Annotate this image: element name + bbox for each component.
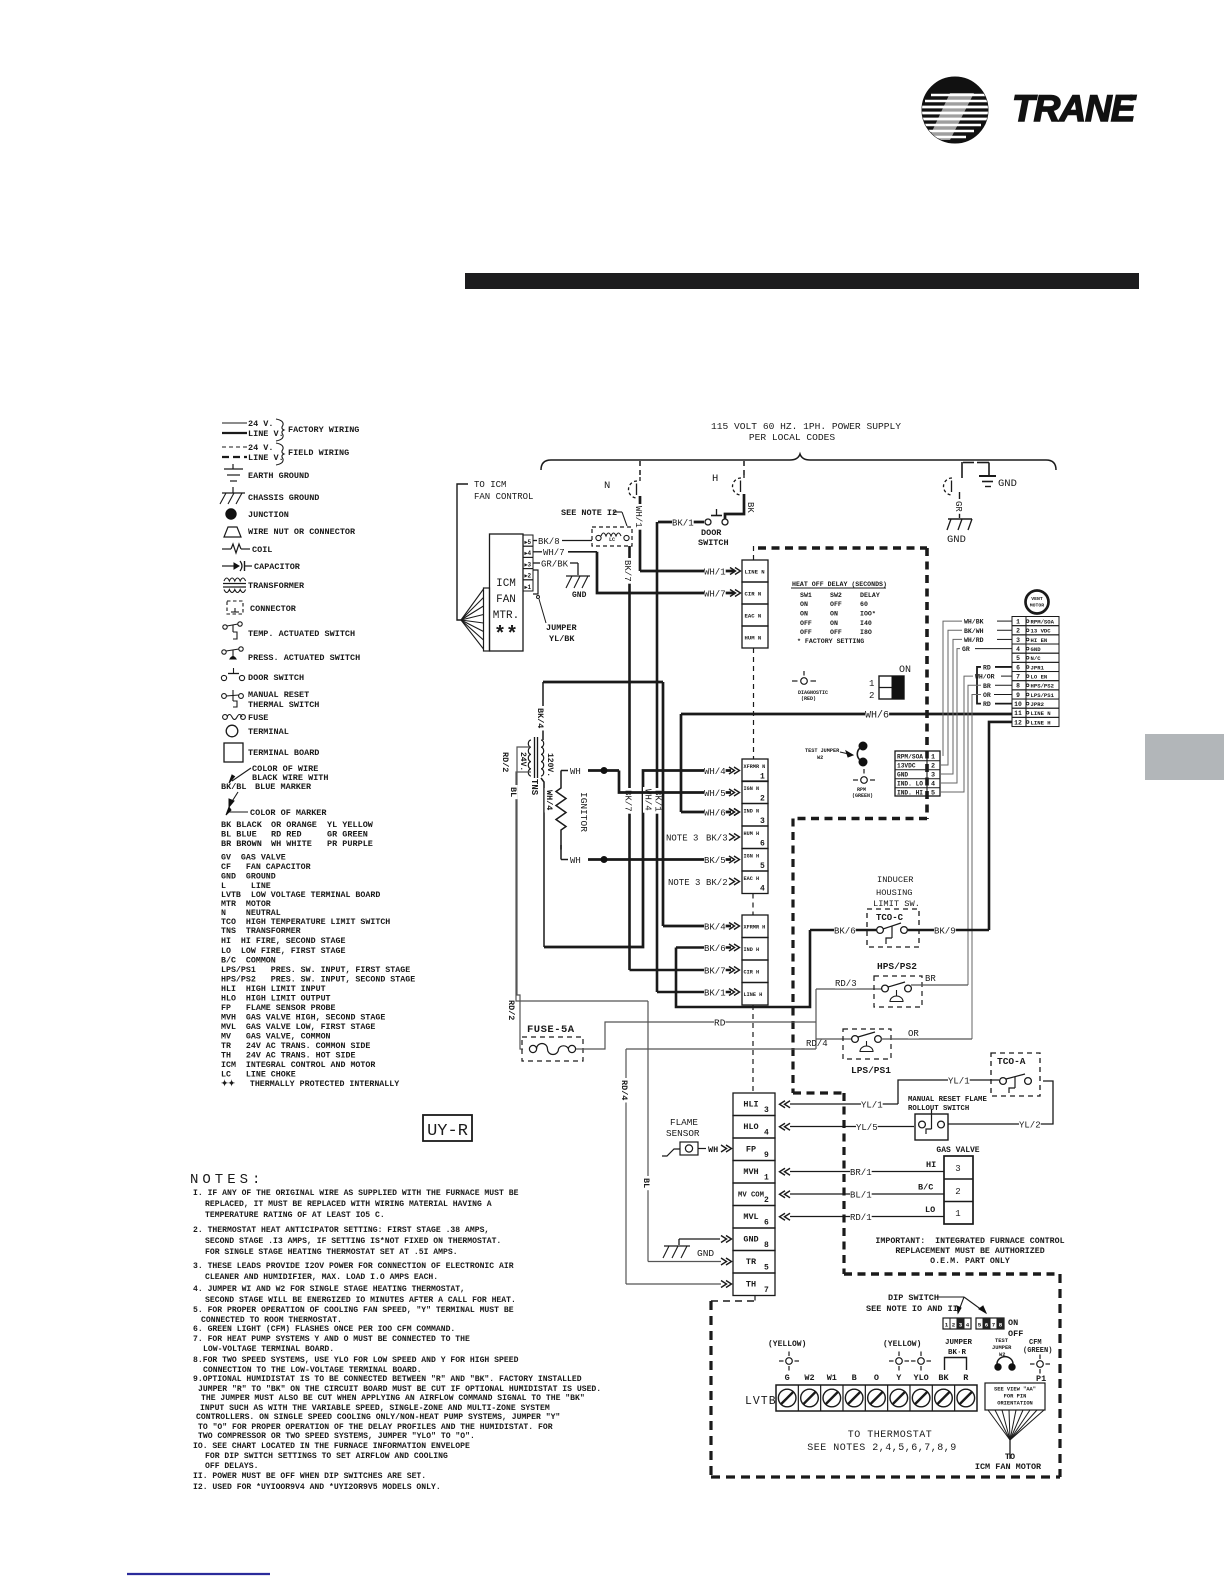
svg-text:HLI HIGH LIMIT INPUT: HLI HIGH LIMIT INPUT <box>221 985 326 994</box>
svg-text:TERMINAL BOARD: TERMINAL BOARD <box>248 748 319 758</box>
svg-text:TRANE: TRANE <box>1012 88 1137 129</box>
svg-text:WH/6: WH/6 <box>704 809 726 819</box>
dip switch block 1-4 <box>943 1318 971 1329</box>
svg-text:TEMPERATURE RATING OF AT LEAST: TEMPERATURE RATING OF AT LEAST IO5 C. <box>205 1211 385 1220</box>
svg-text:FACTORY WIRING: FACTORY WIRING <box>288 425 359 435</box>
svg-text:CLEANER AND HUMIDIFIER, MAX. L: CLEANER AND HUMIDIFIER, MAX. LOAD I.O AM… <box>205 1273 438 1282</box>
svg-text:12: 12 <box>1014 719 1022 726</box>
svg-text:FP: FP <box>746 1145 756 1155</box>
svg-text:GR: GR <box>953 501 963 512</box>
svg-text:BK/5: BK/5 <box>704 856 726 866</box>
svg-text:CF FAN CAPACITOR: CF FAN CAPACITOR <box>221 863 311 872</box>
svg-text:TR 24V AC TRANS. COMMON SIDE: TR 24V AC TRANS. COMMON SIDE <box>221 1042 370 1051</box>
legend terminal symbol <box>226 725 238 737</box>
svg-text:WH WHITE: WH WHITE <box>271 839 312 849</box>
label BK/1 at pin <box>704 990 726 998</box>
svg-text:R: R <box>963 1373 969 1383</box>
wire BK/9 <box>908 929 989 932</box>
svg-text:XFRMR N: XFRMR N <box>744 764 766 770</box>
svg-text:LINE V.: LINE V. <box>248 453 284 463</box>
wire YL/1 to HLI <box>790 1103 898 1105</box>
wire BK/4 top <box>542 682 544 740</box>
svg-text:LPS/PS1 PRES. SW. INPUT, FIR: LPS/PS1 PRES. SW. INPUT, FIRST STAGE <box>221 965 410 975</box>
svg-text:JUMPER: JUMPER <box>992 1345 1012 1351</box>
svg-text:HLO: HLO <box>743 1122 758 1132</box>
label WH/7 at pin <box>704 591 726 599</box>
label BK/6 at pin <box>704 945 726 953</box>
connector chevron right-facing <box>721 1236 732 1243</box>
ignitor bottom WH lead <box>560 845 562 860</box>
svg-text:FOR PIN: FOR PIN <box>1004 1394 1027 1400</box>
ICM pin 5 box <box>523 535 533 546</box>
svg-text:CHASSIS GROUND: CHASSIS GROUND <box>248 493 319 503</box>
connector chevron <box>729 767 740 774</box>
wire BR/1 <box>790 1171 944 1173</box>
jumper BK-R bracket <box>945 1358 967 1371</box>
svg-text:FAN: FAN <box>496 594 516 606</box>
svg-text:BK/4: BK/4 <box>704 923 726 933</box>
svg-text:TO THERMOSTAT: TO THERMOSTAT <box>848 1430 933 1441</box>
legend field brace <box>276 443 284 465</box>
ICM wire fan <box>461 589 484 620</box>
svg-text:3: 3 <box>955 1164 960 1174</box>
svg-text:THERMAL SWITCH: THERMAL SWITCH <box>248 700 319 710</box>
svg-text:ICM FAN MOTOR: ICM FAN MOTOR <box>975 1462 1042 1472</box>
svg-text:RD: RD <box>983 664 991 671</box>
svg-text:GND GROUND: GND GROUND <box>221 873 276 882</box>
svg-text:* FACTORY SETTING: * FACTORY SETTING <box>797 638 864 645</box>
svg-text:LINE N: LINE N <box>745 569 765 576</box>
wire BK/1 stub to door switch <box>658 521 704 524</box>
legend transformer symbol <box>224 578 246 581</box>
legend color-of-marker callout <box>228 811 248 813</box>
svg-text:HEAT OFF DELAY (SECONDS): HEAT OFF DELAY (SECONDS) <box>792 581 887 588</box>
svg-text:NOTES:: NOTES: <box>190 1172 264 1188</box>
svg-text:GND: GND <box>1031 646 1042 653</box>
svg-text:BR: BR <box>983 683 991 690</box>
svg-text:SEE NOTES 2,4,5,6,7,8,9: SEE NOTES 2,4,5,6,7,8,9 <box>807 1443 957 1454</box>
svg-text:3: 3 <box>760 817 765 826</box>
svg-text:(YELLOW): (YELLOW) <box>768 1340 806 1349</box>
svg-text:JUMPER: JUMPER <box>945 1339 973 1347</box>
svg-text:6: 6 <box>1016 664 1020 671</box>
svg-text:OFF: OFF <box>830 629 842 636</box>
svg-text:LVTB LOW VOLTAGE TERMINAL BOA: LVTB LOW VOLTAGE TERMINAL BOARD <box>221 891 380 900</box>
svg-text:WH/4: WH/4 <box>704 767 726 777</box>
test jumper arrow <box>840 752 853 755</box>
wire GR/BK <box>533 562 540 564</box>
rollout switch box <box>915 1114 948 1140</box>
svg-text:VENT: VENT <box>1031 596 1043 602</box>
wire BL vertical <box>647 1001 649 1262</box>
svg-text:FOR DIP SWITCH SETTINGS TO SET: FOR DIP SWITCH SETTINGS TO SET AIRFLOW A… <box>205 1452 448 1461</box>
chassis ground GR/BK <box>566 575 590 577</box>
svg-text:WH/OR: WH/OR <box>975 674 995 681</box>
legend temp actuated switch symbol <box>223 625 227 629</box>
svg-text:LINE H: LINE H <box>1031 719 1051 726</box>
svg-text:TH: TH <box>746 1280 756 1290</box>
svg-text:ON: ON <box>800 601 808 608</box>
wire BK/8 <box>533 540 537 542</box>
svg-text:9.OPTIONAL HUMIDISTAT IS TO BE: 9.OPTIONAL HUMIDISTAT IS TO BE CONNECTED… <box>193 1375 582 1384</box>
svg-text:MOTOR: MOTOR <box>1030 603 1045 609</box>
svg-text:(YELLOW): (YELLOW) <box>883 1340 921 1349</box>
connector chevron WH/6 <box>729 809 740 816</box>
line choke LC <box>592 527 632 546</box>
svg-text:SECOND STAGE .I3 AMPS, IF SETT: SECOND STAGE .I3 AMPS, IF SETTING IS*NOT… <box>205 1237 501 1246</box>
svg-text:B/C COMMON: B/C COMMON <box>221 956 276 966</box>
svg-text:OR: OR <box>983 692 991 699</box>
svg-text:GR: GR <box>962 646 970 653</box>
wire WH/6 drop <box>680 714 683 812</box>
svg-text:WH/7: WH/7 <box>543 548 565 558</box>
transformer TNS right winding <box>541 740 544 776</box>
svg-text:MANUAL RESET FLAME: MANUAL RESET FLAME <box>908 1096 987 1104</box>
svg-text:1: 1 <box>760 773 765 782</box>
svg-text:GND: GND <box>743 1235 758 1245</box>
svg-text:L LINE: L LINE <box>221 882 271 891</box>
svg-text:O: O <box>874 1373 879 1383</box>
see view AA box <box>985 1383 1045 1410</box>
wire BK/7 vertical <box>628 546 631 970</box>
connector EAC N cell <box>742 604 768 626</box>
board outline right <box>925 548 929 819</box>
5-pin connector box <box>895 751 940 796</box>
ICM pin 1 box <box>523 580 533 591</box>
svg-text:RD/2: RD/2 <box>500 752 510 772</box>
svg-text:(GREEN): (GREEN) <box>1023 1347 1052 1355</box>
svg-text:BK/6: BK/6 <box>704 944 726 954</box>
connector chevron right-facing <box>721 1145 732 1152</box>
svg-text:EAC H: EAC H <box>744 876 760 882</box>
svg-text:1: 1 <box>945 1322 949 1329</box>
svg-text:8: 8 <box>1016 683 1020 690</box>
LPS/PS1 box <box>843 1029 891 1059</box>
svg-text:ON: ON <box>899 665 911 676</box>
svg-text:YL/1: YL/1 <box>861 1101 883 1111</box>
svg-text:7: 7 <box>1016 674 1020 681</box>
svg-text:FOR SINGLE STAGE HEATING THERM: FOR SINGLE STAGE HEATING THERMOSTAT SET … <box>205 1248 458 1257</box>
board outline top <box>758 546 927 550</box>
wire RD/4 horizontal <box>626 1048 816 1050</box>
svg-text:CONTROLLERS. ON SINGLE SPEED C: CONTROLLERS. ON SINGLE SPEED COOLING ONL… <box>196 1413 560 1422</box>
wire RD/2 <box>517 747 531 1049</box>
svg-text:BL: BL <box>641 1178 651 1188</box>
svg-text:GND: GND <box>572 591 587 600</box>
svg-text:I8O: I8O <box>860 629 872 636</box>
label WH/1 at pin <box>704 569 726 577</box>
svg-text:6: 6 <box>764 1219 769 1228</box>
wire N dashed drop <box>639 461 641 477</box>
svg-text:3: 3 <box>959 1322 963 1329</box>
svg-text:G: G <box>785 1373 790 1383</box>
svg-text:TO "O" FOR PROPER OPERATION OF: TO "O" FOR PROPER OPERATION OF THE DELAY… <box>198 1423 553 1432</box>
svg-text:YL/2: YL/2 <box>1019 1121 1041 1131</box>
svg-text:MVL: MVL <box>743 1212 758 1222</box>
thermostat box top left <box>711 1300 755 1302</box>
svg-text:GND: GND <box>947 534 966 546</box>
connector chevron <box>729 789 740 796</box>
svg-text:YL/5: YL/5 <box>856 1123 878 1133</box>
wire WH flame sensor <box>698 1148 706 1150</box>
svg-text:3: 3 <box>1016 637 1020 644</box>
thermostat box bottom edge <box>711 1475 1060 1478</box>
svg-text:BK: BK <box>938 1373 949 1383</box>
svg-text:BLUE MARKER: BLUE MARKER <box>255 782 312 792</box>
svg-text:I2. USED FOR *UYIOOR9V4 AND *U: I2. USED FOR *UYIOOR9V4 AND *UYI2OR9V5 M… <box>193 1483 441 1492</box>
legend LINE V field line <box>222 456 247 458</box>
svg-text:BK/1: BK/1 <box>672 519 694 529</box>
svg-text:SWITCH: SWITCH <box>698 538 729 548</box>
svg-text:OFF: OFF <box>1008 1329 1023 1339</box>
svg-text:2: 2 <box>952 1322 956 1329</box>
connector H <box>733 478 742 495</box>
svg-text:BK/9: BK/9 <box>934 927 956 937</box>
svg-text:4: 4 <box>966 1322 970 1329</box>
svg-text:(GREEN): (GREEN) <box>852 793 873 799</box>
legend coil symbol <box>222 548 231 550</box>
svg-text:SEE NOTE IO AND II: SEE NOTE IO AND II <box>866 1304 958 1314</box>
svg-text:JPR2: JPR2 <box>1031 701 1045 708</box>
TCO-C box <box>867 909 919 947</box>
svg-text:DIP SWITCH: DIP SWITCH <box>888 1293 939 1303</box>
connector chevron left-facing <box>780 1101 791 1108</box>
svg-text:RD: RD <box>983 701 991 708</box>
board outline left low <box>842 1093 845 1274</box>
svg-text:H: H <box>712 473 718 485</box>
LPS/PS1 switch <box>852 1036 859 1043</box>
LVTB terminal strip <box>776 1385 977 1411</box>
svg-text:IND H: IND H <box>744 947 760 953</box>
svg-text:CAPACITOR: CAPACITOR <box>254 562 301 572</box>
connector chevron right-facing <box>721 1281 732 1288</box>
HPS/PS2 box <box>874 976 922 1007</box>
svg-text:MVH: MVH <box>743 1167 758 1177</box>
wire RD/3 <box>816 988 881 990</box>
Trane logo circle <box>922 77 988 143</box>
svg-text:6: 6 <box>760 840 765 849</box>
wire WH/7 run <box>597 552 735 593</box>
svg-text:YLO: YLO <box>913 1373 928 1383</box>
ICM pin 4 box <box>523 546 533 557</box>
svg-text:RD/4: RD/4 <box>806 1039 828 1049</box>
svg-text:LINE H: LINE H <box>744 992 763 998</box>
svg-text:WIRE NUT OR CONNECTOR: WIRE NUT OR CONNECTOR <box>248 527 356 537</box>
wire GND pin8 <box>679 1238 720 1240</box>
svg-text:TNS TRANSFORMER: TNS TRANSFORMER <box>221 927 301 936</box>
svg-text:TO: TO <box>1005 1452 1015 1462</box>
svg-text:4. JUMPER WI AND W2 FOR SINGLE: 4. JUMPER WI AND W2 FOR SINGLE STAGE HEA… <box>193 1285 465 1294</box>
svg-text:HI: HI <box>926 1160 936 1170</box>
wire BK/6 left of TCO-C <box>810 929 876 932</box>
gas valve box <box>944 1156 973 1224</box>
svg-text:LPS/PS1: LPS/PS1 <box>851 1065 891 1076</box>
svg-text:BK/2: BK/2 <box>706 878 728 888</box>
svg-text:COIL: COIL <box>252 545 272 555</box>
svg-text:2: 2 <box>764 1196 769 1205</box>
power supply brace <box>541 454 1056 470</box>
wire YL/1 upper <box>898 1080 999 1104</box>
svg-text:JUMPER: JUMPER <box>546 623 578 633</box>
svg-text:TCO-C: TCO-C <box>876 913 904 923</box>
label WH/5 at pin <box>704 790 726 798</box>
svg-text:24 V.: 24 V. <box>248 443 274 453</box>
legend LINE V factory line <box>222 432 247 434</box>
CFM green LED <box>1037 1361 1044 1368</box>
svg-text:HOUSING: HOUSING <box>876 888 913 898</box>
test jumper plug <box>859 742 867 750</box>
connector chevron <box>729 809 740 816</box>
legend door switch symbol <box>221 675 226 680</box>
svg-text:4: 4 <box>1016 646 1020 653</box>
connector chevron WH/1 <box>730 568 741 575</box>
label WH/4 at pin <box>704 768 726 776</box>
svg-text:▸1: ▸1 <box>524 584 532 591</box>
svg-text:RD/4: RD/4 <box>619 1080 629 1100</box>
svg-text:HI HI FIRE, SECOND STAGE: HI HI FIRE, SECOND STAGE <box>221 937 345 946</box>
svg-text:1: 1 <box>955 1209 960 1219</box>
svg-text:WH: WH <box>708 1145 718 1155</box>
svg-text:B/C: B/C <box>918 1183 933 1193</box>
LED yellow 2a <box>896 1358 903 1365</box>
svg-text:▸4: ▸4 <box>524 550 532 557</box>
label WH/6 at pin <box>704 810 726 818</box>
svg-text:6. GREEN LIGHT (CFM) FLASHES O: 6. GREEN LIGHT (CFM) FLASHES ONCE PER IO… <box>193 1325 455 1334</box>
svg-text:WH/5: WH/5 <box>704 789 726 799</box>
svg-text:13VDC: 13VDC <box>897 763 916 770</box>
svg-text:I40: I40 <box>860 620 872 627</box>
svg-text:BK/WH: BK/WH <box>964 628 984 635</box>
svg-text:BR: BR <box>925 974 936 984</box>
svg-text:INPUT SUCH AS WITH THE VARIABL: INPUT SUCH AS WITH THE VARIABLE SPEED, S… <box>200 1404 550 1413</box>
HLI-TH connector column <box>733 1093 775 1116</box>
legend fuse symbol <box>223 715 228 720</box>
ICM pin 3 box <box>523 557 533 568</box>
legend factory brace <box>276 419 284 441</box>
svg-text:N NEUTRAL: N NEUTRAL <box>221 909 281 918</box>
svg-text:IND N: IND N <box>744 809 760 815</box>
svg-text:BK/8: BK/8 <box>538 537 560 547</box>
svg-text:FIELD WIRING: FIELD WIRING <box>288 448 349 458</box>
svg-text:2: 2 <box>869 691 874 701</box>
dip switch block 5-8 <box>976 1318 1004 1329</box>
P1 wire fan <box>988 1410 1010 1440</box>
legend earth ground symbol <box>232 464 234 469</box>
svg-text:FUSE-5A: FUSE-5A <box>527 1024 575 1036</box>
RPM green LED <box>863 769 865 774</box>
svg-text:EARTH GROUND: EARTH GROUND <box>248 471 309 481</box>
label BK/7 at pin <box>704 968 726 976</box>
wire RD from fuse <box>576 1022 816 1049</box>
wire WH/6 main run <box>681 713 1012 716</box>
svg-text:INDUCER: INDUCER <box>877 875 914 885</box>
svg-text:WH: WH <box>570 767 581 777</box>
svg-text:(RED): (RED) <box>801 696 816 702</box>
connector GR <box>944 478 953 495</box>
svg-text:SECOND STAGE WILL BE ENERGIZED: SECOND STAGE WILL BE ENERGIZED IO MINUTE… <box>205 1296 516 1305</box>
svg-text:MV GAS VALVE, COMMON: MV GAS VALVE, COMMON <box>221 1033 331 1042</box>
svg-text:Y: Y <box>896 1373 902 1383</box>
svg-text:120V.: 120V. <box>545 753 554 777</box>
svg-text:BR BROWN: BR BROWN <box>221 839 262 849</box>
legend 24V factory line <box>222 422 247 424</box>
svg-text:GR/BK: GR/BK <box>541 560 569 570</box>
board outline left mid <box>791 819 794 1094</box>
rollout switch <box>919 1121 926 1128</box>
board outline jog left <box>793 817 927 821</box>
connector chevron <box>729 834 740 841</box>
wire OR <box>881 1038 972 1040</box>
svg-text:SEE VIEW "AA": SEE VIEW "AA" <box>994 1387 1036 1393</box>
svg-text:BK/4: BK/4 <box>535 708 545 728</box>
svg-text:N/C: N/C <box>1031 655 1042 662</box>
legend junction dot <box>226 509 236 519</box>
svg-text:**: ** <box>494 624 518 647</box>
wire WH/1 horizontal <box>640 570 735 573</box>
legend connector symbol <box>227 601 243 614</box>
svg-text:CONNECTOR: CONNECTOR <box>250 604 297 614</box>
legend manual reset thermal switch symbol <box>222 694 227 699</box>
svg-text:UY-R: UY-R <box>427 1122 468 1141</box>
svg-text:TCO HIGH TEMPERATURE LIMIT SW: TCO HIGH TEMPERATURE LIMIT SWITCH <box>221 918 390 927</box>
earth ground top right <box>961 462 963 478</box>
test jumper W2 bottom plug <box>995 1364 1001 1370</box>
connector HUM N cell <box>742 626 768 648</box>
svg-text:TNS: TNS <box>529 779 539 796</box>
svg-text:BK/3: BK/3 <box>706 834 728 844</box>
svg-text:HUM N: HUM N <box>745 635 762 642</box>
connector CIR N cell <box>742 582 768 604</box>
connector chevron <box>729 856 740 863</box>
svg-text:GAS VALVE: GAS VALVE <box>936 1146 979 1155</box>
door switch <box>705 519 711 525</box>
svg-text:MANUAL RESET: MANUAL RESET <box>248 690 309 700</box>
wire BK/1 to LINE H pin <box>657 991 731 994</box>
vent motor connector <box>1012 617 1026 626</box>
svg-text:OR ORANGE: OR ORANGE <box>271 820 317 830</box>
ICM pin 2 box <box>523 569 533 580</box>
svg-text:3: 3 <box>764 1106 769 1115</box>
svg-text:TERMINAL: TERMINAL <box>248 727 289 737</box>
svg-text:B: B <box>852 1373 857 1383</box>
wire BL/1 <box>790 1193 944 1195</box>
svg-text:TEST JUMPER: TEST JUMPER <box>805 748 840 754</box>
svg-text:BK BLACK: BK BLACK <box>221 820 263 830</box>
svg-text:TEST: TEST <box>995 1338 1009 1344</box>
svg-text:5: 5 <box>931 790 935 798</box>
svg-text:TEMP. ACTUATED SWITCH: TEMP. ACTUATED SWITCH <box>248 629 355 639</box>
wire BR <box>911 984 968 986</box>
svg-text:5. FOR PROPER OPERATION OF COO: 5. FOR PROPER OPERATION OF COOLING FAN S… <box>193 1306 514 1315</box>
svg-text:TR: TR <box>746 1257 757 1267</box>
wire H dashed drop <box>743 461 745 475</box>
svg-text:W2: W2 <box>804 1373 814 1383</box>
svg-text:8: 8 <box>999 1322 1003 1329</box>
vent motor circle <box>1026 591 1049 614</box>
svg-text:DOOR SWITCH: DOOR SWITCH <box>248 673 304 683</box>
svg-text:24V.: 24V. <box>518 752 527 771</box>
fuse box <box>522 1037 583 1061</box>
svg-text:W2: W2 <box>817 755 823 761</box>
XFRMR-N connector column <box>742 759 768 782</box>
svg-text:GND: GND <box>998 478 1017 490</box>
svg-text:LO: LO <box>925 1205 935 1215</box>
board outline jog2 <box>793 1091 844 1094</box>
board outline bottom heavy <box>844 1272 1060 1275</box>
svg-text:YL YELLOW: YL YELLOW <box>327 820 374 830</box>
connector LINE N cell <box>742 560 768 582</box>
svg-text:GR GREEN: GR GREEN <box>327 830 368 840</box>
